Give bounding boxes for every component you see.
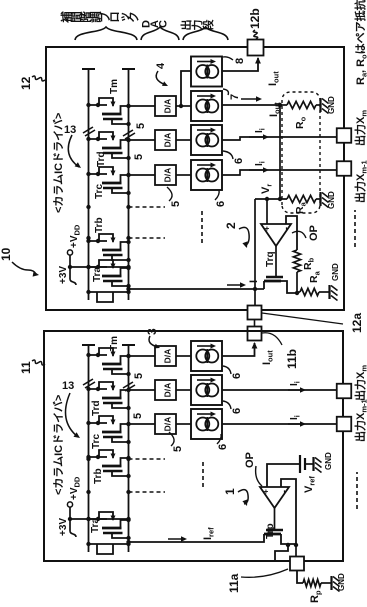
ground of Ro <box>319 98 321 112</box>
11b label + leader <box>262 333 282 345</box>
CS2 output line (Iout node) <box>222 104 280 106</box>
svg-text:12: 12 <box>19 76 33 90</box>
svg-text:5: 5 <box>170 201 182 207</box>
D/A feed wires block12 <box>129 105 156 107</box>
D/A feed wires block11 <box>129 355 156 357</box>
Tra bottom wire block12 <box>89 291 130 293</box>
transistor Trc block12 <box>89 173 108 175</box>
svg-text:出: 出 <box>179 20 193 31</box>
transistor Trc block11 <box>89 422 108 424</box>
block 11 border (column IC driver) <box>44 331 343 561</box>
transistor Tm block12 <box>89 104 108 106</box>
break ticks block12 <box>83 127 93 133</box>
current source CS4 block12 <box>191 160 222 190</box>
svg-text:1: 1 <box>223 488 237 495</box>
resistor Rb (feedback) <box>296 272 298 293</box>
Vref wire + capacitor <box>267 464 300 487</box>
+VDD terminal block12 <box>69 255 71 267</box>
svg-text:段: 段 <box>201 20 215 31</box>
svg-text:Tra: Tra <box>92 267 103 282</box>
svg-text:-: - <box>281 227 291 230</box>
op-amp output to Trq gate <box>275 246 277 277</box>
svg-text:13: 13 <box>64 124 76 136</box>
current source CS2 block11 <box>191 375 222 405</box>
I arrow <box>227 284 243 286</box>
CS1 output to pad 11b (Iout) <box>222 343 255 356</box>
svg-text:+3V: +3V <box>58 266 69 284</box>
svg-text:5: 5 <box>172 446 184 452</box>
I wire from rail B to Trq <box>129 288 256 290</box>
output pad Xm-1 block11 <box>337 417 352 432</box>
transistor Trb block11 <box>89 456 108 458</box>
Iref wire from rail B to Trp <box>129 541 260 543</box>
resistor Rp chain <box>297 571 303 584</box>
D/A converter 3 block12 <box>155 165 176 185</box>
svg-text:D/A: D/A <box>163 99 173 114</box>
transistor Trd block11 <box>89 388 108 390</box>
op-amp OP block12 <box>261 224 291 246</box>
rail A block12 <box>88 69 90 300</box>
resistor Ra (paired) block12 <box>255 198 287 200</box>
svg-text:7: 7 <box>229 94 241 100</box>
brace: interpolation gradation block <box>75 27 137 40</box>
Tra bottom wire block11 <box>89 543 130 545</box>
svg-text:OP: OP <box>308 225 320 241</box>
resistor Rc to ground <box>296 292 298 293</box>
D/A converter 1 block11 <box>155 346 176 366</box>
jog to border block11 <box>275 545 288 560</box>
transistor Tra block12 <box>89 266 108 268</box>
output pad Xm-1 block12 <box>337 161 352 176</box>
+3V supply block11 <box>70 518 129 520</box>
current source CS3 block11 <box>191 409 222 439</box>
svg-text:OP: OP <box>244 452 256 468</box>
D/A to CS wires block11 <box>176 355 191 357</box>
svg-text:Trq: Trq <box>265 251 276 267</box>
output wire Xm block12 (CS3) <box>222 137 337 140</box>
svg-text:5: 5 <box>133 154 145 160</box>
interpolation branch to CS1 block12 <box>181 71 191 106</box>
svg-text:+3V: +3V <box>58 518 69 536</box>
Iref arrow <box>168 538 184 540</box>
svg-text:D/A: D/A <box>163 417 173 432</box>
svg-text:Trb: Trb <box>93 468 104 484</box>
block 12 border (column IC driver) <box>46 47 344 310</box>
dashed channel-ellipsis wires block12 <box>129 206 166 208</box>
svg-text:6: 6 <box>217 444 229 450</box>
transistor Tm block11 <box>89 354 108 356</box>
svg-text:2: 2 <box>224 222 238 229</box>
paired-resistor dashed box <box>282 92 320 213</box>
svg-text:Trb: Trb <box>94 217 105 233</box>
svg-text:8: 8 <box>234 58 246 64</box>
svg-text:11a: 11a <box>227 573 241 593</box>
svg-text:GND: GND <box>327 191 336 209</box>
pad 12a <box>248 306 262 320</box>
svg-text:I: I <box>248 280 260 283</box>
svg-text:D/A: D/A <box>163 133 173 148</box>
svg-text:10: 10 <box>0 247 13 261</box>
svg-text:11b: 11b <box>285 349 299 369</box>
output pad Xm block12 <box>337 128 352 143</box>
12a label + leader <box>262 313 343 324</box>
svg-text:4: 4 <box>155 62 167 69</box>
D/A converter 2 block12 <box>155 130 176 150</box>
transistor Trp <box>266 529 283 531</box>
ground of Rc <box>328 285 330 299</box>
svg-text:GND: GND <box>337 573 346 591</box>
current source CS2 block12 <box>191 91 222 121</box>
brace: DAC <box>141 27 179 40</box>
svg-text:6: 6 <box>215 201 227 207</box>
op-amp OP block11 <box>260 487 289 508</box>
op-amp output to Trp gate <box>274 508 276 530</box>
svg-text:C: C <box>158 20 170 28</box>
op-amp + input wire (Vr) <box>266 199 268 224</box>
D/A converter 1 block12 <box>155 96 176 116</box>
D/A converter 2 block11 <box>155 380 176 400</box>
rail B block12 <box>128 69 130 300</box>
feedback wire block11 <box>281 479 296 545</box>
output wire Xm-1 block12 (CS4) <box>222 170 337 175</box>
svg-text:GND: GND <box>324 452 333 470</box>
svg-text:D/A: D/A <box>163 349 173 364</box>
D/A to CS wires block12 <box>176 105 191 107</box>
current source CS1 block12 <box>191 57 222 87</box>
brace: output stage <box>183 27 228 40</box>
transistor Trb block12 <box>89 240 108 242</box>
svg-text:12a: 12a <box>350 313 364 333</box>
rail A block11 <box>88 345 90 552</box>
bridge wire pads <box>254 320 256 327</box>
svg-text:13: 13 <box>62 380 74 392</box>
svg-text:6: 6 <box>231 373 243 379</box>
svg-text:Trp: Trp <box>265 523 276 539</box>
svg-text:<カラムICドライバ>: <カラムICドライバ> <box>52 395 65 495</box>
dashed channel-ellipsis wires block11 <box>129 458 166 460</box>
svg-text:D/A: D/A <box>163 168 173 183</box>
svg-text:Trc: Trc <box>91 434 102 449</box>
svg-text:D/A: D/A <box>163 383 173 398</box>
svg-text:Tm: Tm <box>109 336 120 351</box>
rail B block11 <box>128 345 130 552</box>
11a label + leader <box>241 569 288 577</box>
break ticks block11 <box>83 379 93 385</box>
svg-text:6: 6 <box>231 408 243 414</box>
Iout arrow (CS2) <box>241 98 259 100</box>
svg-text:GND: GND <box>327 96 336 114</box>
pad 11a <box>295 545 297 558</box>
svg-text:12b: 12b <box>248 8 262 29</box>
+VDD terminal block11 <box>69 507 71 519</box>
svg-text:5: 5 <box>135 123 147 129</box>
transistor Tra block11 <box>89 518 108 520</box>
D/A converter 3 block11 <box>155 414 176 434</box>
12b label + leader <box>253 30 257 39</box>
svg-text:Tm: Tm <box>109 79 120 94</box>
svg-text:, Roはペア抵抗: , Roはペア抵抗 <box>353 0 367 73</box>
output pad Xm block11 <box>337 384 352 399</box>
ground of Rp <box>330 576 332 590</box>
svg-text:Trd: Trd <box>96 151 107 167</box>
transistor Trq <box>266 276 283 278</box>
ground of Ra <box>319 192 321 206</box>
svg-text:5: 5 <box>133 373 145 379</box>
current source CS1 block11 <box>191 341 222 371</box>
ground of Vref cap <box>312 457 314 471</box>
+3V supply block12 <box>70 266 129 268</box>
svg-text:5: 5 <box>132 413 144 419</box>
svg-text:3: 3 <box>145 328 159 335</box>
svg-text:6: 6 <box>233 158 245 164</box>
svg-text:Trc: Trc <box>94 184 105 199</box>
svg-text:力: 力 <box>190 20 204 31</box>
pad 12b <box>248 40 264 56</box>
svg-text:+: + <box>263 226 272 231</box>
CS1 output to pad 12b (Iout) <box>222 58 258 71</box>
svg-text:Tra: Tra <box>90 518 101 533</box>
current source CS3 block12 <box>191 125 222 155</box>
pad 11b <box>248 327 262 341</box>
svg-text:-: - <box>279 490 289 493</box>
output wire Xm block11 (CS2) <box>222 389 337 391</box>
svg-text:ク: ク <box>128 11 141 23</box>
svg-text:11: 11 <box>19 361 33 374</box>
transistor Trd block12 <box>89 138 108 140</box>
output wire Xm-1 block11 (CS3) <box>222 423 337 425</box>
svg-text:Trd: Trd <box>91 400 102 416</box>
resistor Ro block12 <box>280 104 287 106</box>
svg-text:+: + <box>262 489 271 494</box>
svg-text:GND: GND <box>331 263 340 281</box>
node line to Vr <box>279 105 281 199</box>
pad 12a line <box>254 199 256 306</box>
